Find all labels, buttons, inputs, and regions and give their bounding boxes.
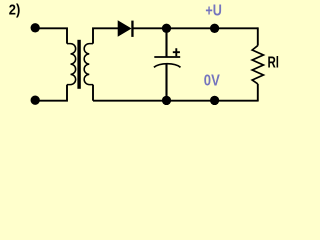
capacitor C1 bottom curved plate: [154, 64, 181, 68]
node: capacitor top junction: [162, 24, 171, 33]
diode D1 cathode bar: [131, 21, 133, 37]
diode D1 triangle (anode): [118, 21, 130, 36]
resistor Rl zigzag: [252, 46, 263, 84]
capacitor C1 bottom lead wire: [165, 65, 167, 101]
transformer T1 primary winding: [67, 44, 76, 85]
node: capacitor bottom junction: [162, 96, 171, 105]
svg-text:0V: 0V: [204, 73, 220, 90]
wire: top rail from diode cathode to resistor corner: [134, 27, 258, 29]
node: 0V junction: [210, 96, 219, 105]
capacitor C1 polarity + sign: [173, 48, 180, 56]
terminal dot top-left input: [31, 23, 40, 32]
svg-text:+U: +U: [205, 3, 222, 20]
wire: secondary bottom lead: [92, 85, 94, 101]
capacitor C1 top lead wire: [165, 28, 167, 57]
svg-text:2): 2): [9, 2, 20, 19]
wire: resistor bottom lead: [257, 84, 259, 102]
capacitor C1 top plate: [154, 56, 180, 58]
wire: resistor top lead: [257, 27, 259, 45]
terminal dot bottom-left input: [31, 96, 40, 105]
transformer T1 secondary winding: [84, 44, 93, 85]
wire: bottom-left input to transformer primary bottom lead: [35, 85, 67, 101]
wire: top-left input to transformer primary top lead: [35, 28, 67, 43]
node: +U junction: [210, 24, 219, 33]
wire: bottom rail: [93, 100, 258, 102]
transformer T1 core: [77, 40, 80, 89]
svg-text:Rl: Rl: [268, 55, 280, 72]
wire: secondary top lead to diode anode: [93, 28, 118, 43]
